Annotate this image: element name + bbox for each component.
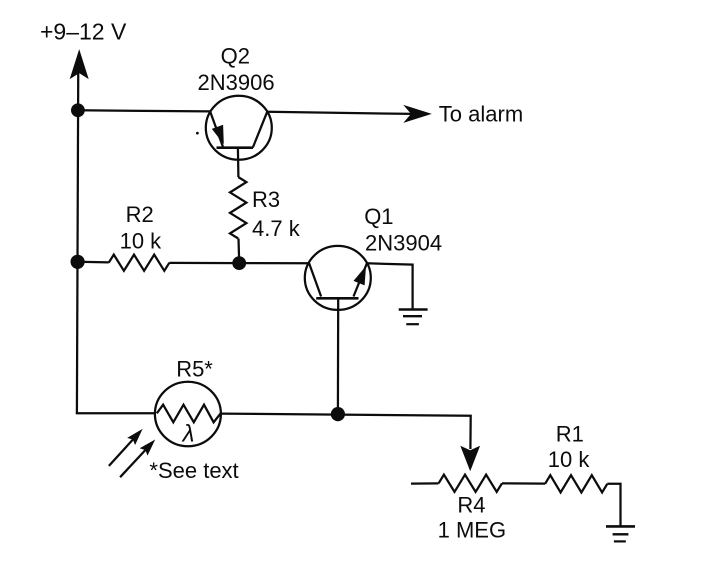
svg-text:1 MEG: 1 MEG <box>438 518 506 543</box>
svg-text:4.7 k: 4.7 k <box>252 216 301 241</box>
svg-text:R3: R3 <box>252 187 280 212</box>
svg-text:Q2: Q2 <box>221 44 250 69</box>
svg-text:2N3906: 2N3906 <box>198 70 275 95</box>
svg-text:λ: λ <box>181 420 195 447</box>
svg-text:10 k: 10 k <box>120 229 163 254</box>
svg-text:R1: R1 <box>556 422 584 447</box>
svg-text:10 k: 10 k <box>548 447 591 472</box>
svg-text:To alarm: To alarm <box>439 102 523 127</box>
svg-text:2N3904: 2N3904 <box>365 231 442 256</box>
svg-text:R5*: R5* <box>176 357 213 382</box>
svg-text:R4: R4 <box>457 492 485 517</box>
svg-text:*See text: *See text <box>149 458 238 483</box>
svg-text:+9–12 V: +9–12 V <box>40 19 127 45</box>
svg-text:Q1: Q1 <box>364 204 393 229</box>
svg-text:R2: R2 <box>126 202 154 227</box>
